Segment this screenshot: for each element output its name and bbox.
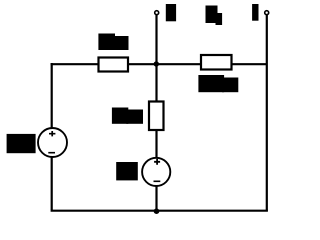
wire right rail from terminal b down: [266, 15, 268, 211]
resistor R3 (middle, vertical): [149, 102, 164, 131]
wire left rail (V1 branch): [51, 63, 53, 210]
voltage source V1 (left): [38, 128, 67, 157]
label R1 value (redacted black box above R1): [98, 34, 128, 51]
wire bottom rail: [51, 210, 268, 212]
resistor R2 (top right, horizontal): [201, 55, 232, 70]
node junction dot at middle/bottom-rail crossing: [154, 208, 160, 214]
terminal a (open circle, top left of middle branch): [155, 11, 159, 15]
label V2 value (redacted black box left of V2): [116, 162, 138, 180]
terminal b (open circle, top right): [265, 11, 269, 15]
label R3 value (redacted black box left of R3): [112, 108, 143, 124]
label node b (redacted black bar, top right): [252, 4, 258, 21]
voltage source V2 (bottom middle): [142, 158, 170, 186]
label node a (redacted black box, top): [166, 4, 176, 21]
label current arrow (redacted L-shaped box, top middle): [206, 6, 223, 26]
resistor R1 (top left, horizontal): [99, 58, 129, 72]
wire middle branch from terminal a through R3 and V2: [155, 15, 157, 210]
node junction dot at middle/top-rail crossing: [154, 61, 159, 66]
wire top horizontal rail (node between R1, R2, R3 top): [51, 63, 267, 65]
label R2 value (redacted black box below R2): [198, 75, 238, 92]
label V1 value (redacted black box left of V1): [7, 134, 36, 153]
